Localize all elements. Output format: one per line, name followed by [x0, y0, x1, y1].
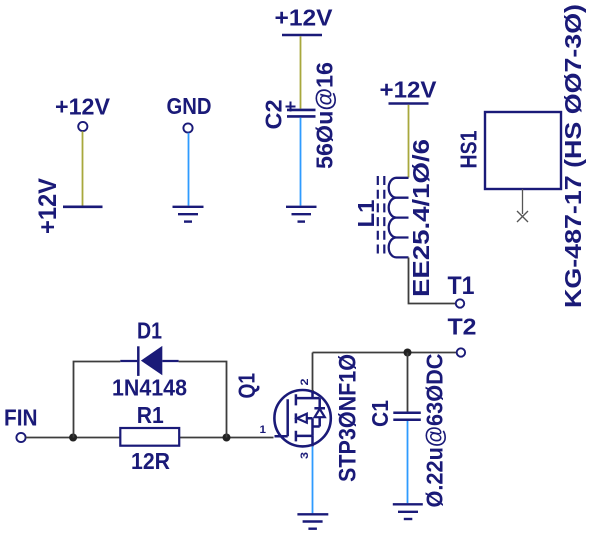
svg-text:D1: D1 [137, 318, 162, 344]
svg-text:3: 3 [299, 452, 311, 459]
svg-text:R1: R1 [137, 402, 164, 428]
svg-text:+12V: +12V [275, 5, 334, 31]
svg-text:Q1: Q1 [234, 373, 260, 399]
svg-text:C1: C1 [367, 400, 393, 427]
svg-text:HS1: HS1 [456, 130, 482, 168]
svg-text:+12V: +12V [380, 77, 438, 103]
svg-text:KG-487-17 (HS ØØ7-3Ø): KG-487-17 (HS ØØ7-3Ø) [560, 4, 586, 308]
svg-text:FIN: FIN [4, 404, 38, 430]
svg-text:C2: C2 [261, 100, 287, 130]
svg-text:2: 2 [299, 379, 311, 386]
svg-text:56Øu@16: 56Øu@16 [312, 62, 338, 169]
svg-text:+12V: +12V [55, 94, 111, 120]
svg-text:GND: GND [167, 93, 212, 119]
svg-text:1N4148: 1N4148 [112, 375, 187, 401]
svg-text:Ø.22u@63ØDC: Ø.22u@63ØDC [422, 354, 448, 508]
svg-text:+12V: +12V [34, 178, 62, 234]
svg-text:STP3ØNF1Ø: STP3ØNF1Ø [335, 354, 362, 482]
svg-text:1: 1 [260, 424, 267, 436]
svg-text:EE25.4/1Ø/6: EE25.4/1Ø/6 [408, 139, 434, 297]
svg-text:12R: 12R [131, 448, 170, 474]
svg-text:T1: T1 [448, 272, 475, 300]
svg-text:T2: T2 [448, 314, 477, 340]
svg-text:L1: L1 [353, 199, 379, 227]
